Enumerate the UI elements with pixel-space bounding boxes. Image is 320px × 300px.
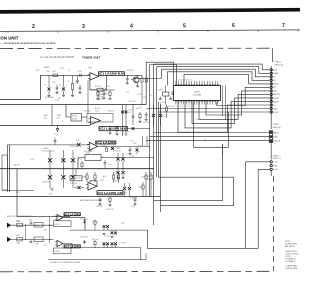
- svg-text:C105 T102: C105 T102: [126, 70, 134, 72]
- svg-text:VDD: VDD: [273, 91, 277, 93]
- svg-text:CN102: CN102: [273, 124, 280, 126]
- page header black bar: [0, 8, 300, 14]
- tuner unit boundary corner right: [272, 48, 274, 62]
- junction dot R: [25, 239, 26, 240]
- resistor R104: [141, 75, 143, 78]
- svg-text:OUT L: OUT L: [121, 223, 126, 225]
- connector CN101 pin 3: [270, 76, 272, 78]
- wire drops row3b: [142, 136, 144, 146]
- capacitor C147: [99, 197, 101, 200]
- svg-text:R140 1k: R140 1k: [95, 86, 101, 88]
- svg-text:CN103: CN103: [273, 155, 280, 157]
- input arrow L: [7, 223, 11, 228]
- diode D105 pair: [72, 150, 74, 188]
- svg-text:C114: C114: [54, 134, 58, 136]
- svg-text:C126: C126: [162, 115, 166, 117]
- svg-text:4: 4: [130, 24, 133, 30]
- svg-text:AM RF: AM RF: [44, 147, 49, 150]
- capacitor C140: [103, 90, 105, 93]
- svg-text:R CH: R CH: [273, 169, 278, 171]
- resistor R146: [109, 197, 111, 199]
- svg-text:4.7/50: 4.7/50: [35, 243, 39, 245]
- resistor R142: [139, 112, 141, 114]
- wire row1 sub bus: [90, 89, 115, 91]
- diode D114: [111, 147, 114, 150]
- wire nest n3 to CN101 pin3: [162, 69, 270, 78]
- electrolytic pair L2: [106, 225, 109, 228]
- svg-text:L CH: L CH: [273, 162, 278, 164]
- svg-text:104: 104: [128, 112, 131, 114]
- switch box S101: [85, 155, 101, 161]
- shield box IF amp: [87, 113, 113, 122]
- svg-text:AM IN: AM IN: [274, 131, 280, 134]
- IC label box LA1266 row2: [99, 126, 127, 130]
- wire U3a feedback: [90, 181, 97, 186]
- svg-text:IC101: IC101: [194, 92, 200, 94]
- svg-text:C102: C102: [78, 71, 82, 73]
- svg-text:X101 75k: X101 75k: [168, 106, 175, 108]
- resistor R121: [94, 172, 96, 175]
- resistor R186: [94, 240, 96, 242]
- svg-text:OUT R: OUT R: [121, 243, 127, 245]
- component box C184: [34, 222, 43, 227]
- svg-text:D103 D104 D105: D103 D104 D105: [42, 150, 54, 152]
- wire long bus y112 to pin13: [159, 111, 270, 113]
- wire U4R out: [63, 244, 72, 248]
- left box outline: [2, 155, 7, 190]
- diode D115: [123, 187, 126, 190]
- resistor R124: [145, 172, 147, 175]
- svg-text:R103 10k: R103 10k: [97, 94, 104, 96]
- svg-text:10/16 x2: 10/16 x2: [104, 236, 110, 238]
- wire vert x140.8: [140, 248, 142, 260]
- wire vertical pair right of IC A: [221, 85, 223, 116]
- connector CN103 pin 3: [270, 168, 272, 170]
- connector CN101 pin 10: [270, 100, 272, 102]
- amp R shield box: [54, 248, 72, 254]
- IC IC101 LC72131 body: [174, 85, 221, 100]
- svg-text:VR 10k: VR 10k: [100, 146, 105, 148]
- wire feeds to CN102: [154, 132, 269, 134]
- svg-text:C146: C146: [101, 157, 105, 159]
- svg-text:GND: GND: [273, 108, 278, 110]
- svg-text:10.7MHz: 10.7MHz: [84, 110, 91, 112]
- svg-text:C140: C140: [106, 86, 110, 88]
- connector CN101 pin 13: [270, 111, 272, 113]
- capacitor C106 on out: [126, 75, 128, 78]
- svg-text:IC2 LA1266: IC2 LA1266: [96, 141, 116, 145]
- svg-text:R180: R180: [16, 220, 20, 222]
- resistor R110: [166, 105, 168, 108]
- wire CF101 out: [82, 116, 88, 118]
- wire box corner B: [161, 104, 234, 213]
- svg-text:R181: R181: [16, 235, 20, 237]
- svg-text:★TUNER OUT PB AMPLIFY EQ A: ★TUNER OUT PB AMPLIFY EQ AMP: [50, 261, 81, 264]
- IC label box row3b: [96, 141, 116, 144]
- svg-text:C117: C117: [130, 141, 134, 143]
- connector CN101 stem: [270, 66, 272, 129]
- svg-text:4.5: 4.5: [150, 95, 152, 97]
- connector CN103 stem: [270, 171, 272, 177]
- svg-text:C118: C118: [76, 140, 80, 142]
- resistor R122b: [118, 172, 120, 175]
- svg-text:R123: R123: [139, 187, 143, 189]
- connector CN102 pin 1: [270, 132, 272, 134]
- resistor R145: [81, 161, 83, 163]
- capacitor C103: [77, 75, 79, 80]
- resistor R122: [113, 172, 115, 175]
- IC label box row5: [97, 191, 123, 195]
- connector CN103 pin 2: [270, 164, 272, 166]
- capacitor C181: [30, 239, 32, 241]
- svg-text:104: 104: [108, 164, 111, 166]
- resistor R144: [116, 126, 118, 128]
- svg-text:★ SAFETY PART: ★ SAFETY PART: [285, 265, 297, 268]
- capacitor C185 pair: [84, 220, 86, 225]
- svg-text:S-CURVE: S-CURVE: [113, 148, 120, 150]
- IC IC101 bottom pins: [175, 100, 177, 102]
- svg-text:C108 220: C108 220: [100, 90, 107, 92]
- svg-text:REC: REC: [44, 230, 48, 232]
- svg-text:R124: R124: [142, 177, 146, 179]
- svg-text:4.7k: 4.7k: [126, 92, 129, 94]
- diode D101: [152, 114, 155, 117]
- svg-text:L2: L2: [68, 81, 70, 83]
- wire vertical pair right of IC B: [225, 85, 227, 120]
- diode D116: [128, 187, 131, 190]
- svg-text:L101: L101: [52, 71, 56, 73]
- connector CN103 pin 1: [270, 161, 272, 163]
- svg-text:AM OSC: AM OSC: [273, 93, 281, 96]
- svg-text:S-1102: S-1102: [55, 251, 60, 253]
- svg-text:R106 10k: R106 10k: [100, 88, 107, 90]
- svg-text:R130 10k: R130 10k: [196, 119, 202, 121]
- wire route x158 down: [159, 102, 234, 177]
- svg-text:C143 104: C143 104: [143, 122, 150, 124]
- capacitor C113 pair: [122, 105, 124, 137]
- svg-text:VT: VT: [40, 78, 42, 80]
- electrolytic pair R4: [114, 242, 117, 245]
- diode D103 pair: [49, 150, 51, 188]
- capacitor C145: [129, 146, 131, 149]
- connector CN102 pin 3: [270, 140, 272, 142]
- svg-text:NOTE:: NOTE:: [285, 241, 291, 243]
- wire bus row5: [0, 196, 161, 198]
- svg-text:B.OUT: B.OUT: [273, 112, 279, 114]
- svg-text:IF: IF: [62, 121, 63, 123]
- wire bus L out: [70, 229, 148, 231]
- svg-text:IC4 LA1266: IC4 LA1266: [65, 212, 81, 216]
- capacitor C187 pair: [84, 240, 86, 244]
- svg-text:R116 4.7k: R116 4.7k: [138, 145, 145, 147]
- electrolytic pair R3: [111, 242, 114, 245]
- svg-text:CF101: CF101: [72, 116, 77, 118]
- connector CN102 pin 2: [270, 136, 272, 138]
- wire junction link x49: [49, 217, 51, 243]
- op-amp U3a: [88, 182, 97, 190]
- connector CN101 pin 2: [270, 72, 272, 74]
- connector CN101 pin 11: [270, 104, 272, 106]
- wire row L in: [11, 224, 53, 226]
- diode on U2a out: [132, 127, 135, 130]
- svg-text:R115 10k: R115 10k: [70, 146, 77, 148]
- svg-text:479: 479: [57, 118, 60, 120]
- svg-text:(YA011-C): (YA011-C): [273, 157, 282, 160]
- wire vert x146 link: [145, 253, 147, 259]
- svg-text:D130: D130: [133, 143, 137, 145]
- svg-text:B+: B+: [140, 107, 142, 109]
- svg-text:CN101: CN101: [275, 61, 282, 63]
- svg-text:C180: C180: [29, 220, 33, 222]
- svg-text:TION UNIT: TION UNIT: [0, 36, 19, 41]
- resistor R181: [17, 237, 23, 241]
- svg-text:AGC: AGC: [103, 175, 107, 178]
- diode D113: [77, 143, 81, 147]
- wire U2b out: [98, 145, 151, 147]
- wire shield vertical D: [156, 67, 158, 178]
- tuner unit boundary dashed top: [0, 47, 272, 49]
- wire U2a out: [127, 128, 150, 130]
- svg-text:S101 BAND: S101 BAND: [84, 150, 93, 153]
- capacitor C141: [56, 85, 58, 88]
- wire IC bottom pin stubs: [175, 102, 177, 105]
- svg-text:R125 220: R125 220: [146, 179, 153, 181]
- svg-text:DATA: DATA: [273, 72, 278, 75]
- wire R-ch out: [258, 169, 270, 248]
- capacitor C180: [30, 223, 32, 225]
- svg-text:7: 7: [282, 23, 285, 29]
- svg-text:C121: C121: [100, 180, 104, 182]
- wire bus row3: [0, 125, 90, 127]
- svg-text:C124: C124: [160, 89, 164, 91]
- svg-text:R124 1k: R124 1k: [146, 176, 152, 178]
- svg-text:XT: XT: [273, 105, 276, 107]
- svg-text:7P: 7P: [68, 70, 70, 72]
- svg-text:C9 33: C9 33: [137, 94, 141, 96]
- wire nest n1 to CN101 pin1: [154, 64, 270, 70]
- junction dot L: [25, 225, 26, 226]
- input arrow R: [7, 237, 11, 242]
- svg-text:R146 220: R146 220: [107, 209, 114, 211]
- wire long bus y108.5 to pin12: [146, 108, 269, 110]
- wire S101 out: [101, 157, 154, 159]
- wire S101 stub: [78, 158, 85, 169]
- wire CN101 pin6 feed: [217, 87, 269, 105]
- capacitor C113b: [125, 105, 127, 137]
- svg-text:C105: C105: [60, 68, 64, 70]
- box below bus row4: [70, 176, 82, 181]
- varactor D101b: [63, 75, 65, 87]
- svg-text:D106 D107: D106 D107: [113, 150, 121, 152]
- electrolytic pair R1: [103, 242, 106, 245]
- diode D111: [116, 171, 119, 174]
- connector CN101 pin 5: [270, 83, 272, 85]
- wire bus2 to shield: [87, 105, 89, 114]
- capacitor C111: [159, 98, 162, 100]
- IC label box LA1266 row1: [99, 72, 125, 76]
- capacitor C112: [169, 98, 172, 100]
- grid tick marks: [7, 31, 9, 33]
- component box C186: [34, 237, 43, 242]
- svg-text:D1: D1: [45, 85, 47, 87]
- svg-text:C185 10/16: C185 10/16: [80, 219, 88, 221]
- svg-text:10.7M: 10.7M: [72, 119, 77, 121]
- svg-text:• : terminal and peripheral ci: • : terminal and peripheral circuit are …: [1, 41, 56, 45]
- tuner unit boundary dashed bottom: [0, 270, 273, 273]
- svg-text:FM FE: FM FE: [273, 98, 279, 100]
- connector CN101 pin 1: [270, 69, 272, 71]
- diode D112: [121, 171, 124, 174]
- wire bus row2: [0, 104, 146, 106]
- resistor R140: [97, 90, 99, 92]
- svg-text:D2: D2: [59, 85, 61, 87]
- connector CN101 pin 12: [270, 107, 272, 109]
- electrolytic pair L3: [111, 232, 114, 235]
- svg-text:GND: GND: [274, 136, 279, 138]
- capacitor C144: [109, 126, 111, 129]
- wire input step left: [0, 75, 50, 99]
- capacitor C146: [104, 160, 106, 163]
- svg-text:AM FE: AM FE: [273, 100, 279, 103]
- wire nest n4 to CN101 pin4: [168, 72, 270, 86]
- wire nest n2 to CN101 pin2: [157, 67, 270, 74]
- svg-text:1SS133: 1SS133: [113, 181, 119, 183]
- svg-text:C145: C145: [130, 156, 134, 158]
- capacitor C148: [134, 197, 136, 200]
- inductor L101 series: [53, 74, 58, 77]
- connector CN102 body: [269, 131, 272, 143]
- wire route x193 branch: [194, 102, 229, 148]
- IC label box amp R: [64, 245, 80, 248]
- svg-text:PLL: PLL: [204, 140, 207, 142]
- resistor R103 feedback: [97, 88, 103, 91]
- connector CN101 pin 7: [270, 90, 272, 92]
- svg-text:4.7/50: 4.7/50: [35, 225, 39, 227]
- wire bottom gnd link: [48, 259, 146, 261]
- svg-text:L103: L103: [16, 192, 20, 194]
- connector CN102 stem: [270, 142, 272, 159]
- svg-text:C5: C5: [82, 217, 84, 219]
- svg-text:0.022: 0.022: [55, 99, 59, 101]
- svg-text:1-2, U2,U4,U6 (Ms) NX-MD1R: 1-2, U2,U4,U6 (Ms) NX-MD1R: [40, 56, 74, 59]
- wire box corner A right edge ext: [222, 144, 224, 155]
- electrolytic pair L1: [103, 225, 106, 228]
- wire L-ch out: [148, 162, 271, 249]
- resistor R125: [150, 172, 152, 175]
- svg-text:6: 6: [232, 23, 235, 29]
- svg-text:R107: R107: [44, 115, 48, 117]
- svg-text:B+ 4.5V: B+ 4.5V: [95, 108, 100, 110]
- electrolytic pair L4: [114, 232, 117, 235]
- capacitor C142: [79, 85, 81, 88]
- svg-text:R145: R145: [78, 158, 82, 160]
- svg-text:22 21 20 19 18 17 16: 22 21 20 19 18 17 16: [178, 80, 192, 82]
- svg-text:C119 104: C119 104: [70, 183, 77, 185]
- wire opamp1 to bus2: [87, 80, 89, 105]
- svg-text:LC72131: LC72131: [193, 95, 202, 97]
- wire IC top pin stubs: [175, 81, 177, 84]
- tuner unit boundary dashed right: [272, 176, 274, 271]
- amp L shield box: [54, 221, 72, 227]
- svg-text:S-METER: S-METER: [130, 198, 138, 200]
- svg-text:2: 2: [32, 24, 35, 30]
- svg-text:FM ANT: FM ANT: [44, 66, 50, 69]
- svg-text:IC1 LA1266 N,M: IC1 LA1266 N,M: [99, 72, 125, 76]
- svg-text:FM IF: FM IF: [88, 68, 92, 70]
- wire junction link x25: [25, 225, 27, 239]
- diode D104 pair: [62, 150, 64, 188]
- wire x133 drop: [132, 105, 134, 126]
- svg-text:PB: PB: [44, 245, 46, 247]
- wire shield vertical C: [153, 64, 155, 225]
- diode arrow below row3: [57, 126, 59, 130]
- header rule line: [0, 30, 300, 32]
- svg-text:FM OUT: FM OUT: [274, 140, 282, 142]
- svg-text:C113: C113: [128, 110, 132, 112]
- wire box corner A: [154, 144, 223, 200]
- resistor R123: [142, 182, 144, 185]
- svg-text:uF 50WV UNLESS: uF 50WV UNLESS: [285, 253, 298, 255]
- svg-text:GND: GND: [273, 165, 278, 167]
- svg-text:R109: R109: [104, 93, 108, 95]
- svg-text:1 2 3 4 5 6 7 8 9 10 11: 1 2 3 4 5 6 7 8 9 10 11: [176, 106, 190, 108]
- IC IC101 top pins: [175, 84, 177, 86]
- svg-text:C147 104: C147 104: [96, 206, 103, 208]
- wire bus row4: [0, 168, 154, 170]
- svg-text:T101: T101: [46, 71, 50, 73]
- resistor R120: [86, 172, 88, 175]
- svg-text:R143 10k: R143 10k: [108, 110, 115, 112]
- svg-text:C148: C148: [131, 206, 135, 208]
- varactor D101a: [48, 75, 50, 87]
- svg-text:R108: R108: [57, 115, 61, 117]
- svg-text:(YA011-A): (YA011-A): [275, 63, 284, 66]
- svg-text:ANT: ANT: [36, 69, 39, 72]
- svg-text:CE: CE: [273, 80, 276, 82]
- connector CN101 pin 4: [270, 79, 272, 81]
- op-amp U2a: [91, 117, 101, 125]
- connector CN101 pin 6: [270, 86, 272, 88]
- resistor R185: [94, 220, 96, 222]
- capacitor C102 series: [79, 74, 81, 77]
- diode D130: [136, 149, 139, 152]
- wire R103 loop: [90, 75, 106, 89]
- transistor Q102: [133, 77, 139, 83]
- wire U4L out: [63, 218, 85, 231]
- junction dot row3b: [103, 146, 104, 147]
- svg-text:0.022: 0.022: [95, 111, 99, 113]
- wire row1 to shield: [133, 78, 162, 80]
- svg-text:3: 3: [82, 24, 85, 30]
- svg-text:CL: CL: [273, 77, 275, 79]
- svg-text:CAPACITORS IN: CAPACITORS IN: [285, 250, 297, 253]
- wire left box bottom: [2, 189, 34, 191]
- svg-text:104: 104: [58, 98, 61, 100]
- wire row3b bus: [7, 144, 89, 146]
- wire shield vertical A: [146, 62, 173, 104]
- svg-text:IC2 LA1266 N,M: IC2 LA1266 N,M: [100, 127, 128, 131]
- capacitor C119: [51, 188, 54, 190]
- svg-text:C113 104: C113 104: [122, 131, 129, 133]
- svg-text:C122 104: C122 104: [120, 193, 127, 195]
- diode D107: [121, 157, 124, 160]
- wire nest n5 to CN101 pin5: [184, 74, 269, 85]
- svg-text:C142: C142: [75, 82, 79, 84]
- wire U1a output: [124, 74, 142, 76]
- svg-text:(YA011-B): (YA011-B): [273, 126, 282, 129]
- svg-text:5: 5: [183, 23, 186, 29]
- svg-text:S-1102: S-1102: [55, 224, 60, 226]
